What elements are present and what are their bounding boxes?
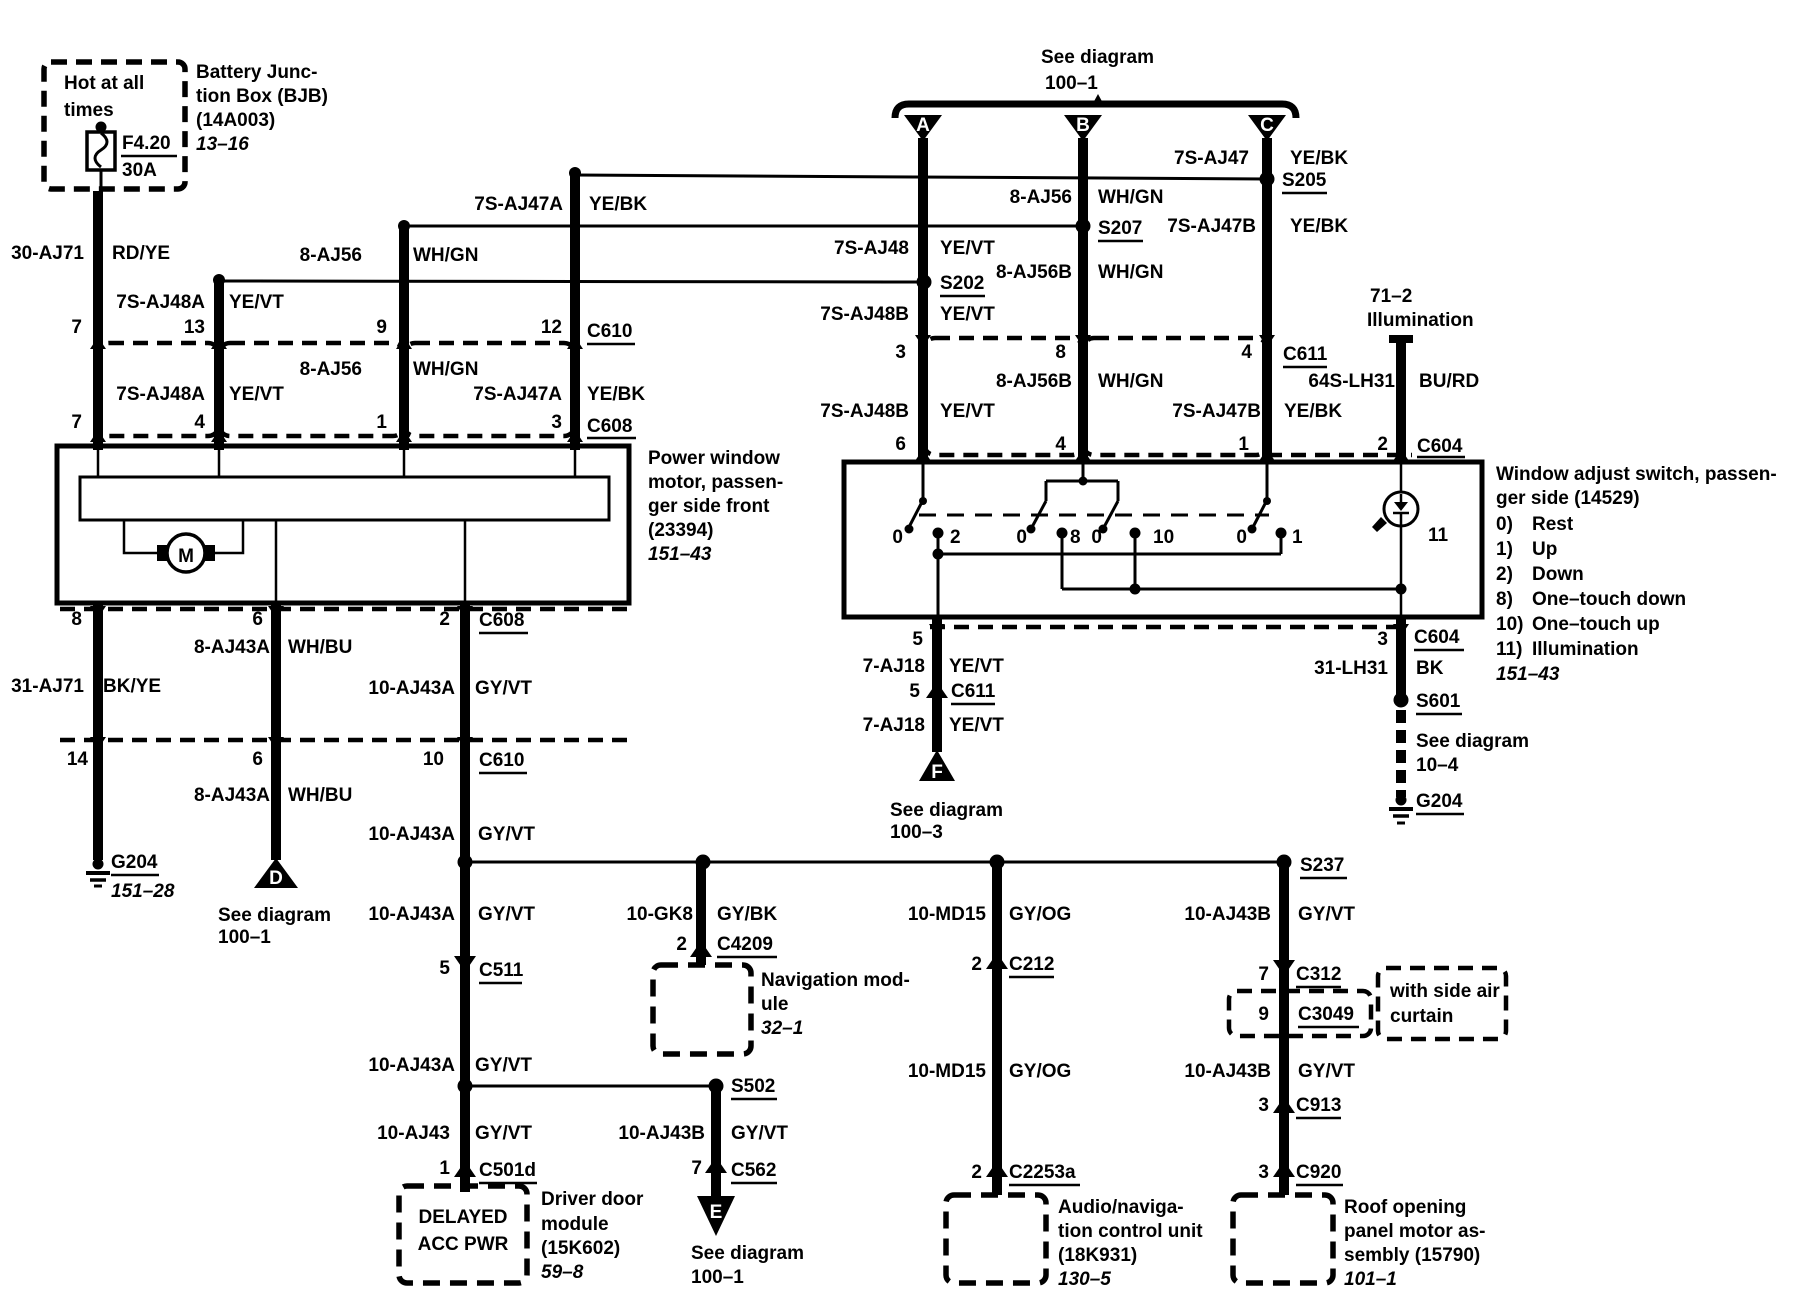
svg-text:times: times: [64, 100, 114, 121]
svg-text:RD/YE: RD/YE: [112, 243, 170, 264]
dashed wire to ground: [1396, 710, 1406, 797]
svg-text:C608: C608: [587, 416, 632, 437]
bracket: [895, 104, 1296, 118]
svg-text:ger side front: ger side front: [648, 496, 770, 517]
svg-text:GY/VT: GY/VT: [731, 1123, 788, 1144]
svg-text:C608: C608: [479, 610, 524, 631]
pin drop wires inside motor box: [98, 448, 575, 601]
svg-text:0: 0: [892, 527, 903, 548]
svg-text:12: 12: [541, 317, 562, 338]
svg-text:10-AJ43B: 10-AJ43B: [618, 1123, 705, 1144]
svg-text:7: 7: [1258, 964, 1269, 985]
svg-text:7S-AJ47A: 7S-AJ47A: [474, 194, 563, 215]
svg-text:2: 2: [971, 1162, 982, 1183]
svg-text:C501d: C501d: [479, 1160, 536, 1181]
wire 10-AJ43B to triangle E: [711, 1086, 721, 1198]
svg-text:GY/VT: GY/VT: [1298, 1061, 1355, 1082]
svg-text:10): 10): [1496, 614, 1523, 635]
svg-text:101–1: 101–1: [1344, 1269, 1397, 1290]
node junction dots on bus: [458, 855, 473, 870]
svg-text:7S-AJ48: 7S-AJ48: [834, 238, 909, 259]
off-page connector triangle D: [254, 858, 298, 888]
splice S205: [1260, 172, 1275, 187]
switch gang dashed coupling line: [919, 514, 1269, 517]
svg-text:7: 7: [691, 1158, 702, 1179]
svg-text:YE/BK: YE/BK: [1290, 148, 1348, 169]
svg-text:4: 4: [1241, 342, 1252, 363]
svg-text:8: 8: [71, 609, 82, 630]
svg-text:9: 9: [376, 317, 387, 338]
svg-text:1: 1: [1238, 434, 1249, 455]
svg-text:2: 2: [971, 954, 982, 975]
svg-text:YE/VT: YE/VT: [229, 384, 284, 405]
svg-text:GY/VT: GY/VT: [475, 1055, 532, 1076]
wire splice line to S205: [575, 175, 1267, 179]
svg-text:8-AJ56: 8-AJ56: [300, 245, 362, 266]
svg-text:S601: S601: [1416, 691, 1461, 712]
svg-text:WH/GN: WH/GN: [1098, 187, 1163, 208]
svg-text:YE/BK: YE/BK: [1284, 401, 1342, 422]
connector C608 row below motor: [60, 607, 629, 612]
svg-text:GY/VT: GY/VT: [475, 1123, 532, 1144]
svg-text:5: 5: [439, 958, 450, 979]
svg-text:C562: C562: [731, 1160, 776, 1181]
svg-text:See diagram: See diagram: [890, 800, 1003, 821]
motor M: [124, 520, 243, 553]
svg-text:8: 8: [1070, 527, 1081, 548]
svg-text:tion Box (BJB): tion Box (BJB): [196, 86, 328, 107]
svg-text:panel motor as-: panel motor as-: [1344, 1221, 1485, 1242]
connector C611 dashed boxes: [924, 338, 1267, 455]
svg-text:G204: G204: [1416, 791, 1463, 812]
svg-text:1: 1: [376, 412, 387, 433]
svg-text:YE/VT: YE/VT: [940, 401, 995, 422]
splice S601: [1394, 693, 1409, 708]
svg-text:YE/VT: YE/VT: [940, 238, 995, 259]
svg-text:S207: S207: [1098, 218, 1142, 239]
node splice stub 8-AJ56: [398, 220, 410, 232]
connector chevrons C611/C604: [915, 335, 1409, 461]
svg-text:ule: ule: [761, 994, 788, 1015]
wire C: [1262, 138, 1272, 462]
svg-text:0: 0: [1091, 527, 1102, 548]
svg-text:A: A: [916, 115, 930, 136]
svg-text:8-AJ43A: 8-AJ43A: [194, 637, 270, 658]
svg-text:5: 5: [909, 681, 920, 702]
svg-text:8-AJ56: 8-AJ56: [1010, 187, 1072, 208]
svg-text:Driver door: Driver door: [541, 1189, 644, 1210]
off-page connector triangle F: [919, 750, 955, 781]
svg-text:Roof opening: Roof opening: [1344, 1197, 1466, 1218]
connector C610/C608 dashed boxes left: [98, 343, 575, 436]
svg-text:7S-AJ47: 7S-AJ47: [1174, 148, 1249, 169]
svg-text:C4209: C4209: [717, 934, 773, 955]
audio navigation control unit dashed box: [946, 1195, 1046, 1283]
driver door module dashed box DELAYED ACC PWR: [399, 1186, 527, 1283]
svg-text:See diagram: See diagram: [1416, 731, 1529, 752]
svg-text:C2253a: C2253a: [1009, 1162, 1076, 1183]
svg-text:C604: C604: [1417, 436, 1463, 457]
svg-text:8-AJ56B: 8-AJ56B: [996, 262, 1072, 283]
svg-text:Battery Junc-: Battery Junc-: [196, 62, 317, 83]
svg-text:GY/BK: GY/BK: [717, 904, 777, 925]
svg-text:3: 3: [895, 342, 906, 363]
wire 10-AJ43A GY/VT: [460, 603, 470, 1192]
svg-text:GY/VT: GY/VT: [478, 904, 535, 925]
roof opening panel motor dashed box: [1233, 1195, 1333, 1283]
svg-text:151–43: 151–43: [648, 544, 712, 565]
with side air curtain dashed box: [1378, 968, 1506, 1039]
svg-text:See diagram: See diagram: [691, 1243, 804, 1264]
svg-text:BK: BK: [1416, 658, 1444, 679]
svg-text:100–3: 100–3: [890, 822, 943, 843]
svg-text:YE/VT: YE/VT: [949, 715, 1004, 736]
node junction to S502: [458, 1079, 473, 1094]
svg-text:7S-AJ48A: 7S-AJ48A: [116, 292, 205, 313]
svg-text:2: 2: [1377, 434, 1388, 455]
svg-text:ACC PWR: ACC PWR: [418, 1234, 509, 1255]
svg-text:2: 2: [439, 609, 450, 630]
svg-text:3: 3: [1377, 629, 1388, 650]
svg-text:2: 2: [950, 527, 961, 548]
svg-text:Illumination: Illumination: [1367, 310, 1474, 331]
svg-text:WH/GN: WH/GN: [413, 245, 478, 266]
svg-text:Rest: Rest: [1532, 514, 1574, 535]
node splice stub 7S-AJ48A: [213, 274, 225, 286]
off-page connector triangle E: [697, 1196, 735, 1236]
svg-text:ger side (14529): ger side (14529): [1496, 488, 1640, 509]
svg-text:5: 5: [912, 629, 923, 650]
splice S202: [917, 275, 932, 290]
splice S502: [709, 1079, 724, 1094]
connector C604 dashed stub: [1267, 453, 1412, 458]
svg-text:M: M: [178, 546, 194, 567]
fuse F4.20 30A: [87, 122, 115, 194]
svg-text:BK/YE: BK/YE: [103, 676, 161, 697]
wire splice line to S202: [219, 281, 924, 282]
svg-text:G204: G204: [111, 852, 158, 873]
svg-text:7S-AJ47B: 7S-AJ47B: [1172, 401, 1261, 422]
svg-text:6: 6: [252, 609, 263, 630]
illumination lamp 11: [1400, 464, 1403, 492]
svg-text:BU/RD: BU/RD: [1419, 371, 1479, 392]
svg-text:100–1: 100–1: [1045, 73, 1098, 94]
svg-text:WH/GN: WH/GN: [1098, 262, 1163, 283]
svg-text:(23394): (23394): [648, 520, 714, 541]
svg-text:11: 11: [1428, 525, 1449, 546]
wire B: [1078, 138, 1088, 462]
svg-text:4: 4: [194, 412, 205, 433]
navigation module dashed box: [653, 965, 751, 1054]
svg-text:4: 4: [1055, 434, 1066, 455]
wire 10-MD15 GY/OG: [992, 862, 1002, 1195]
svg-text:Down: Down: [1532, 564, 1584, 585]
svg-text:with side air: with side air: [1389, 981, 1500, 1002]
svg-text:10-AJ43A: 10-AJ43A: [368, 1055, 455, 1076]
svg-text:C610: C610: [587, 321, 632, 342]
svg-text:WH/BU: WH/BU: [288, 785, 352, 806]
svg-text:13–16: 13–16: [196, 134, 249, 155]
switch 2 pole from B: [1031, 464, 1401, 589]
svg-text:(18K931): (18K931): [1058, 1245, 1137, 1266]
svg-text:YE/VT: YE/VT: [949, 656, 1004, 677]
svg-text:See diagram: See diagram: [1041, 47, 1154, 68]
svg-text:2): 2): [1496, 564, 1513, 585]
svg-text:31-LH31: 31-LH31: [1314, 658, 1388, 679]
svg-text:Illumination: Illumination: [1532, 639, 1639, 660]
svg-text:YE/VT: YE/VT: [940, 304, 995, 325]
svg-text:One–touch down: One–touch down: [1532, 589, 1686, 610]
wire 7-AJ18 YE/VT to F: [932, 617, 942, 752]
svg-text:30-AJ71: 30-AJ71: [11, 243, 84, 264]
svg-text:151–43: 151–43: [1496, 664, 1560, 685]
svg-text:GY/VT: GY/VT: [475, 678, 532, 699]
svg-text:0: 0: [1236, 527, 1247, 548]
window adjust switch box outline: [844, 462, 1482, 617]
svg-text:11): 11): [1496, 639, 1522, 660]
svg-text:F: F: [931, 762, 943, 783]
svg-text:3: 3: [1258, 1095, 1269, 1116]
Battery Junction Box dashed enclosure: [44, 62, 185, 189]
ground G204 left: [86, 859, 110, 887]
wire 30-AJ71 RD/YE: [93, 191, 103, 450]
switch 1 pole from A: [908, 464, 1281, 615]
svg-text:Navigation mod-: Navigation mod-: [761, 970, 910, 991]
svg-text:14: 14: [67, 749, 89, 770]
connector C3049 dashed box: [1229, 991, 1371, 1036]
wire A: [918, 138, 928, 462]
svg-text:YE/BK: YE/BK: [589, 194, 647, 215]
svg-text:13: 13: [184, 317, 205, 338]
svg-text:10-MD15: 10-MD15: [908, 904, 987, 925]
splice S207: [1076, 219, 1091, 234]
svg-text:10-AJ43B: 10-AJ43B: [1184, 1061, 1271, 1082]
wire 10-AJ43B GY/VT from S237: [1279, 862, 1289, 1195]
wire 8-AJ43A WH/BU: [271, 603, 281, 860]
off-page connector triangle A: [904, 115, 942, 141]
svg-text:B: B: [1076, 115, 1090, 136]
svg-text:GY/VT: GY/VT: [478, 824, 535, 845]
illumination feed wire: [1389, 335, 1413, 343]
svg-text:tion control unit: tion control unit: [1058, 1221, 1203, 1242]
svg-text:10-AJ43A: 10-AJ43A: [368, 824, 455, 845]
svg-text:Power window: Power window: [648, 448, 780, 469]
svg-text:2: 2: [676, 934, 687, 955]
svg-text:10-GK8: 10-GK8: [626, 904, 693, 925]
svg-text:See diagram: See diagram: [218, 905, 331, 926]
svg-text:130–5: 130–5: [1058, 1269, 1111, 1290]
svg-text:C611: C611: [951, 681, 996, 702]
svg-text:C511: C511: [479, 960, 524, 981]
svg-text:curtain: curtain: [1390, 1006, 1453, 1027]
svg-text:8): 8): [1496, 589, 1513, 610]
svg-text:59–8: 59–8: [541, 1262, 584, 1283]
svg-text:Hot at all: Hot at all: [64, 73, 144, 94]
svg-text:(14A003): (14A003): [196, 110, 275, 131]
svg-text:10-AJ43B: 10-AJ43B: [1184, 904, 1271, 925]
svg-text:10: 10: [1153, 527, 1174, 548]
svg-text:E: E: [710, 1202, 723, 1223]
svg-text:7-AJ18: 7-AJ18: [863, 656, 925, 677]
svg-text:YE/BK: YE/BK: [1290, 216, 1348, 237]
svg-text:151–28: 151–28: [111, 881, 175, 902]
svg-text:1: 1: [1292, 527, 1303, 548]
svg-text:10-AJ43A: 10-AJ43A: [368, 678, 455, 699]
power window motor box outline: [57, 446, 629, 603]
svg-text:Up: Up: [1532, 539, 1557, 560]
svg-text:motor, passen-: motor, passen-: [648, 472, 783, 493]
svg-text:10-AJ43A: 10-AJ43A: [368, 904, 455, 925]
svg-text:31-AJ71: 31-AJ71: [11, 676, 84, 697]
wire 31-AJ71 BK/YE: [93, 603, 103, 860]
svg-text:0: 0: [1016, 527, 1027, 548]
off-page connector triangle C: [1248, 115, 1286, 141]
svg-text:71–2: 71–2: [1370, 286, 1412, 307]
svg-text:10–4: 10–4: [1416, 755, 1459, 776]
svg-text:module: module: [541, 1214, 609, 1235]
junction bus line to S237: [465, 861, 1284, 864]
off-page connector triangle B: [1064, 115, 1102, 141]
switch 3 pole from C: [1252, 464, 1267, 529]
svg-text:7-AJ18: 7-AJ18: [863, 715, 925, 736]
svg-text:7S-AJ48A: 7S-AJ48A: [116, 384, 205, 405]
svg-text:S502: S502: [731, 1076, 775, 1097]
svg-text:10-MD15: 10-MD15: [908, 1061, 987, 1082]
svg-text:3: 3: [551, 412, 562, 433]
wire 31-LH31 BK: [1396, 617, 1406, 700]
wire splice line to S207: [404, 225, 1083, 228]
svg-text:1: 1: [439, 1158, 450, 1179]
svg-text:10: 10: [423, 749, 444, 770]
svg-text:64S-LH31: 64S-LH31: [1308, 371, 1395, 392]
svg-text:8-AJ43A: 8-AJ43A: [194, 785, 270, 806]
svg-text:C3049: C3049: [1298, 1004, 1354, 1025]
svg-text:YE/BK: YE/BK: [587, 384, 645, 405]
svg-text:D: D: [269, 868, 283, 889]
svg-text:10-AJ43: 10-AJ43: [377, 1123, 450, 1144]
svg-text:C913: C913: [1296, 1095, 1341, 1116]
svg-text:7S-AJ47B: 7S-AJ47B: [1167, 216, 1256, 237]
svg-text:7: 7: [71, 412, 82, 433]
svg-text:S237: S237: [1300, 855, 1344, 876]
svg-text:100–1: 100–1: [691, 1267, 744, 1288]
svg-text:YE/VT: YE/VT: [229, 292, 284, 313]
svg-text:WH/BU: WH/BU: [288, 637, 352, 658]
svg-text:GY/VT: GY/VT: [1298, 904, 1355, 925]
svg-text:6: 6: [895, 434, 906, 455]
ground G204 right: [1389, 795, 1413, 824]
motor inner bar: [80, 477, 609, 520]
svg-text:C: C: [1260, 115, 1274, 136]
svg-text:7S-AJ48B: 7S-AJ48B: [820, 304, 909, 325]
svg-text:C212: C212: [1009, 954, 1054, 975]
svg-text:Window adjust switch, passen-: Window adjust switch, passen-: [1496, 464, 1777, 485]
svg-text:DELAYED: DELAYED: [418, 1207, 507, 1228]
svg-text:8-AJ56: 8-AJ56: [300, 359, 362, 380]
svg-text:7: 7: [71, 317, 82, 338]
svg-text:C610: C610: [479, 750, 524, 771]
svg-text:F4.20: F4.20: [122, 133, 171, 154]
svg-text:32–1: 32–1: [761, 1018, 803, 1039]
svg-text:C920: C920: [1296, 1162, 1341, 1183]
svg-text:(15K602): (15K602): [541, 1238, 620, 1259]
svg-text:WH/GN: WH/GN: [413, 359, 478, 380]
svg-text:One–touch up: One–touch up: [1532, 614, 1660, 635]
svg-text:C312: C312: [1296, 964, 1341, 985]
svg-text:8-AJ56B: 8-AJ56B: [996, 371, 1072, 392]
svg-text:3: 3: [1258, 1162, 1269, 1183]
connector chevrons left rows: [90, 337, 583, 442]
svg-text:0): 0): [1496, 514, 1513, 535]
svg-text:7S-AJ47A: 7S-AJ47A: [473, 384, 562, 405]
svg-text:30A: 30A: [122, 160, 157, 181]
node splice stub 7S-AJ47A: [569, 167, 581, 179]
svg-text:GY/OG: GY/OG: [1009, 904, 1071, 925]
svg-text:C611: C611: [1283, 344, 1328, 365]
svg-text:7S-AJ48B: 7S-AJ48B: [820, 401, 909, 422]
svg-text:WH/GN: WH/GN: [1098, 371, 1163, 392]
svg-text:C604: C604: [1414, 627, 1460, 648]
svg-text:8: 8: [1055, 342, 1066, 363]
svg-text:100–1: 100–1: [218, 927, 271, 948]
connector C604 row below switch: [930, 625, 1408, 630]
svg-text:1): 1): [1496, 539, 1513, 560]
svg-text:GY/OG: GY/OG: [1009, 1061, 1071, 1082]
connector C610 row 2: [60, 738, 629, 743]
svg-text:sembly (15790): sembly (15790): [1344, 1245, 1480, 1266]
svg-text:9: 9: [1258, 1004, 1269, 1025]
wire 10-GK8 GY/BK: [696, 862, 706, 965]
svg-text:S202: S202: [940, 273, 984, 294]
svg-text:S205: S205: [1282, 170, 1327, 191]
svg-text:Audio/naviga-: Audio/naviga-: [1058, 1197, 1184, 1218]
svg-text:6: 6: [252, 749, 263, 770]
